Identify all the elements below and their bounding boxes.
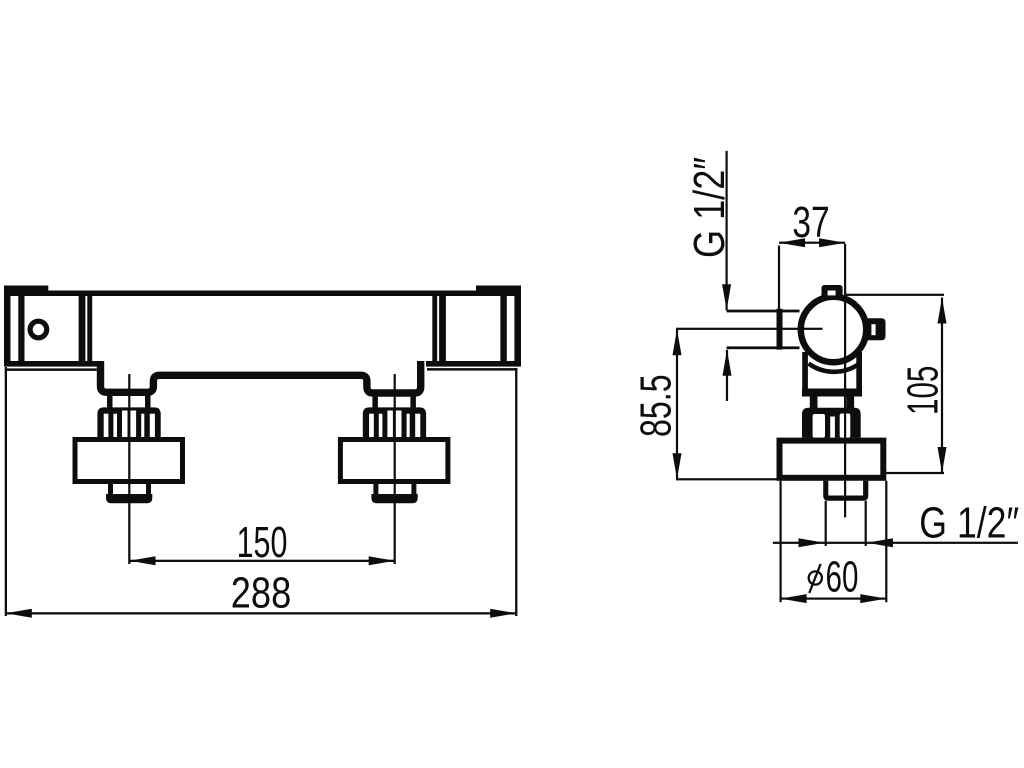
left knob knurl slots	[104, 411, 155, 438]
left knob lower neck left bar	[108, 484, 113, 498]
dimension 288 right extension line	[515, 368, 517, 616]
side view inlet pipe end plate edge	[777, 309, 783, 350]
dimension 288 right arrow	[490, 609, 516, 618]
diameter 60 left extension line	[780, 481, 782, 602]
dimension 37 right arrow	[819, 238, 845, 247]
left bracket inner line	[18, 293, 24, 364]
left bracket right line b	[87, 293, 92, 364]
outlet G 1/2 dimension line	[773, 542, 1018, 544]
right knob stem left bar	[372, 392, 378, 410]
diameter 60 dimension line	[781, 598, 887, 600]
diameter 60 symbol	[809, 564, 822, 593]
left knob knurled cap	[97, 407, 160, 437]
left knob center line	[128, 374, 130, 564]
diameter 60 left arrow	[781, 594, 807, 603]
outlet left extension line	[825, 501, 827, 546]
left knob bottom flange	[106, 494, 152, 503]
svg-text:105: 105	[898, 366, 947, 415]
side view outlet stub	[823, 481, 868, 501]
side view stem right bar	[846, 397, 854, 409]
outlet right extension line	[865, 501, 867, 546]
dimension 150 left arrow	[130, 556, 156, 565]
side view wall flange rectangle	[780, 441, 884, 478]
G 1/2 top leader line	[726, 151, 728, 310]
side view vertical center line	[844, 244, 846, 518]
dimension 105 bottom extension line	[885, 472, 944, 474]
dimension 105 top arrow	[938, 298, 947, 324]
G 1/2 lower arrow up with tail	[723, 350, 732, 376]
left knob lower neck right bar	[146, 484, 151, 498]
right bracket bottom line	[426, 361, 521, 367]
side view stem left bar	[810, 397, 818, 409]
dimension 105 bottom arrow	[938, 447, 947, 473]
side view inlet pipe bottom line	[727, 346, 800, 349]
dimension 85.5 line	[676, 329, 678, 479]
side view valve body circle	[801, 297, 866, 362]
right bracket outer edge	[514, 286, 521, 367]
thin edge line below right bracket	[427, 368, 517, 371]
svg-text:G 1/2″: G 1/2″	[686, 157, 734, 258]
left bracket bottom line	[4, 361, 99, 367]
left wall bracket cap	[4, 286, 48, 297]
right knob knurled cap	[363, 407, 426, 437]
mixer body front view: top bar line	[4, 291, 521, 297]
side view body bottom arc	[809, 363, 861, 372]
side view knurled cap	[802, 408, 861, 438]
right bracket left line b	[432, 293, 437, 364]
side view neck right line	[856, 352, 862, 391]
side view top cap notch	[828, 291, 836, 296]
dimension 37 left arrow	[779, 238, 805, 247]
dimension 150 right arrow	[369, 556, 395, 565]
left bracket screw hole	[30, 321, 47, 338]
thin edge line below left bracket	[7, 368, 97, 371]
diameter 60 right arrow	[860, 594, 886, 603]
side view inlet pipe top line	[727, 310, 800, 313]
dimension 85.5 top arrow	[673, 329, 682, 355]
dimension 288 left arrow	[6, 609, 32, 618]
dimension 37 left extension line	[778, 246, 780, 311]
right knob lower neck left bar	[373, 484, 378, 498]
side view step bar	[802, 389, 862, 397]
right bracket inner line	[500, 293, 506, 364]
dimension 288 line	[6, 612, 516, 614]
outlet left arrow pointing right	[799, 538, 825, 547]
left bracket outer edge	[4, 286, 11, 367]
svg-text:150: 150	[237, 518, 288, 567]
side view pipe center line	[676, 328, 823, 330]
dimension 85.5 bottom extension line	[676, 478, 783, 480]
right bracket left line a	[439, 293, 446, 364]
svg-text:288: 288	[231, 570, 292, 618]
right knob stem right bar	[410, 392, 416, 410]
svg-text:37: 37	[792, 199, 829, 247]
right knob body rectangle	[340, 440, 448, 482]
side view knurl slots	[813, 414, 851, 438]
left knob stem right bar	[145, 392, 151, 410]
G 1/2 top arrow down	[722, 284, 731, 310]
svg-text:G 1/2″: G 1/2″	[919, 499, 1019, 547]
dimension 150 line	[129, 560, 395, 562]
left knob stem left bar	[107, 392, 113, 410]
left bracket right line a	[79, 293, 86, 364]
side view neck left line	[802, 352, 808, 391]
dimension 288 left extension line	[5, 367, 7, 616]
outlet right arrow pointing left	[867, 538, 893, 547]
right wall bracket cap	[476, 286, 521, 297]
side view right nub	[866, 318, 886, 340]
right knob knurl slots	[369, 411, 420, 438]
right knob lower neck right bar	[411, 484, 416, 498]
side view right nub notch	[871, 324, 875, 335]
dimension 105 line	[941, 298, 943, 474]
dimension 37 line	[779, 242, 845, 244]
left knob body rectangle	[75, 440, 183, 482]
dimension 85.5 bottom arrow	[673, 453, 682, 479]
right knob bottom flange	[371, 494, 417, 503]
diameter 60 right extension line	[885, 481, 887, 602]
side view top cap	[822, 285, 843, 297]
body bottom contour with knob notches	[101, 361, 421, 393]
side view outlet stub interior	[828, 481, 863, 496]
svg-text:60: 60	[826, 552, 859, 601]
right knob center line	[394, 374, 396, 564]
svg-text:85.5: 85.5	[632, 374, 681, 437]
dimension 105 top extension line	[845, 294, 944, 296]
